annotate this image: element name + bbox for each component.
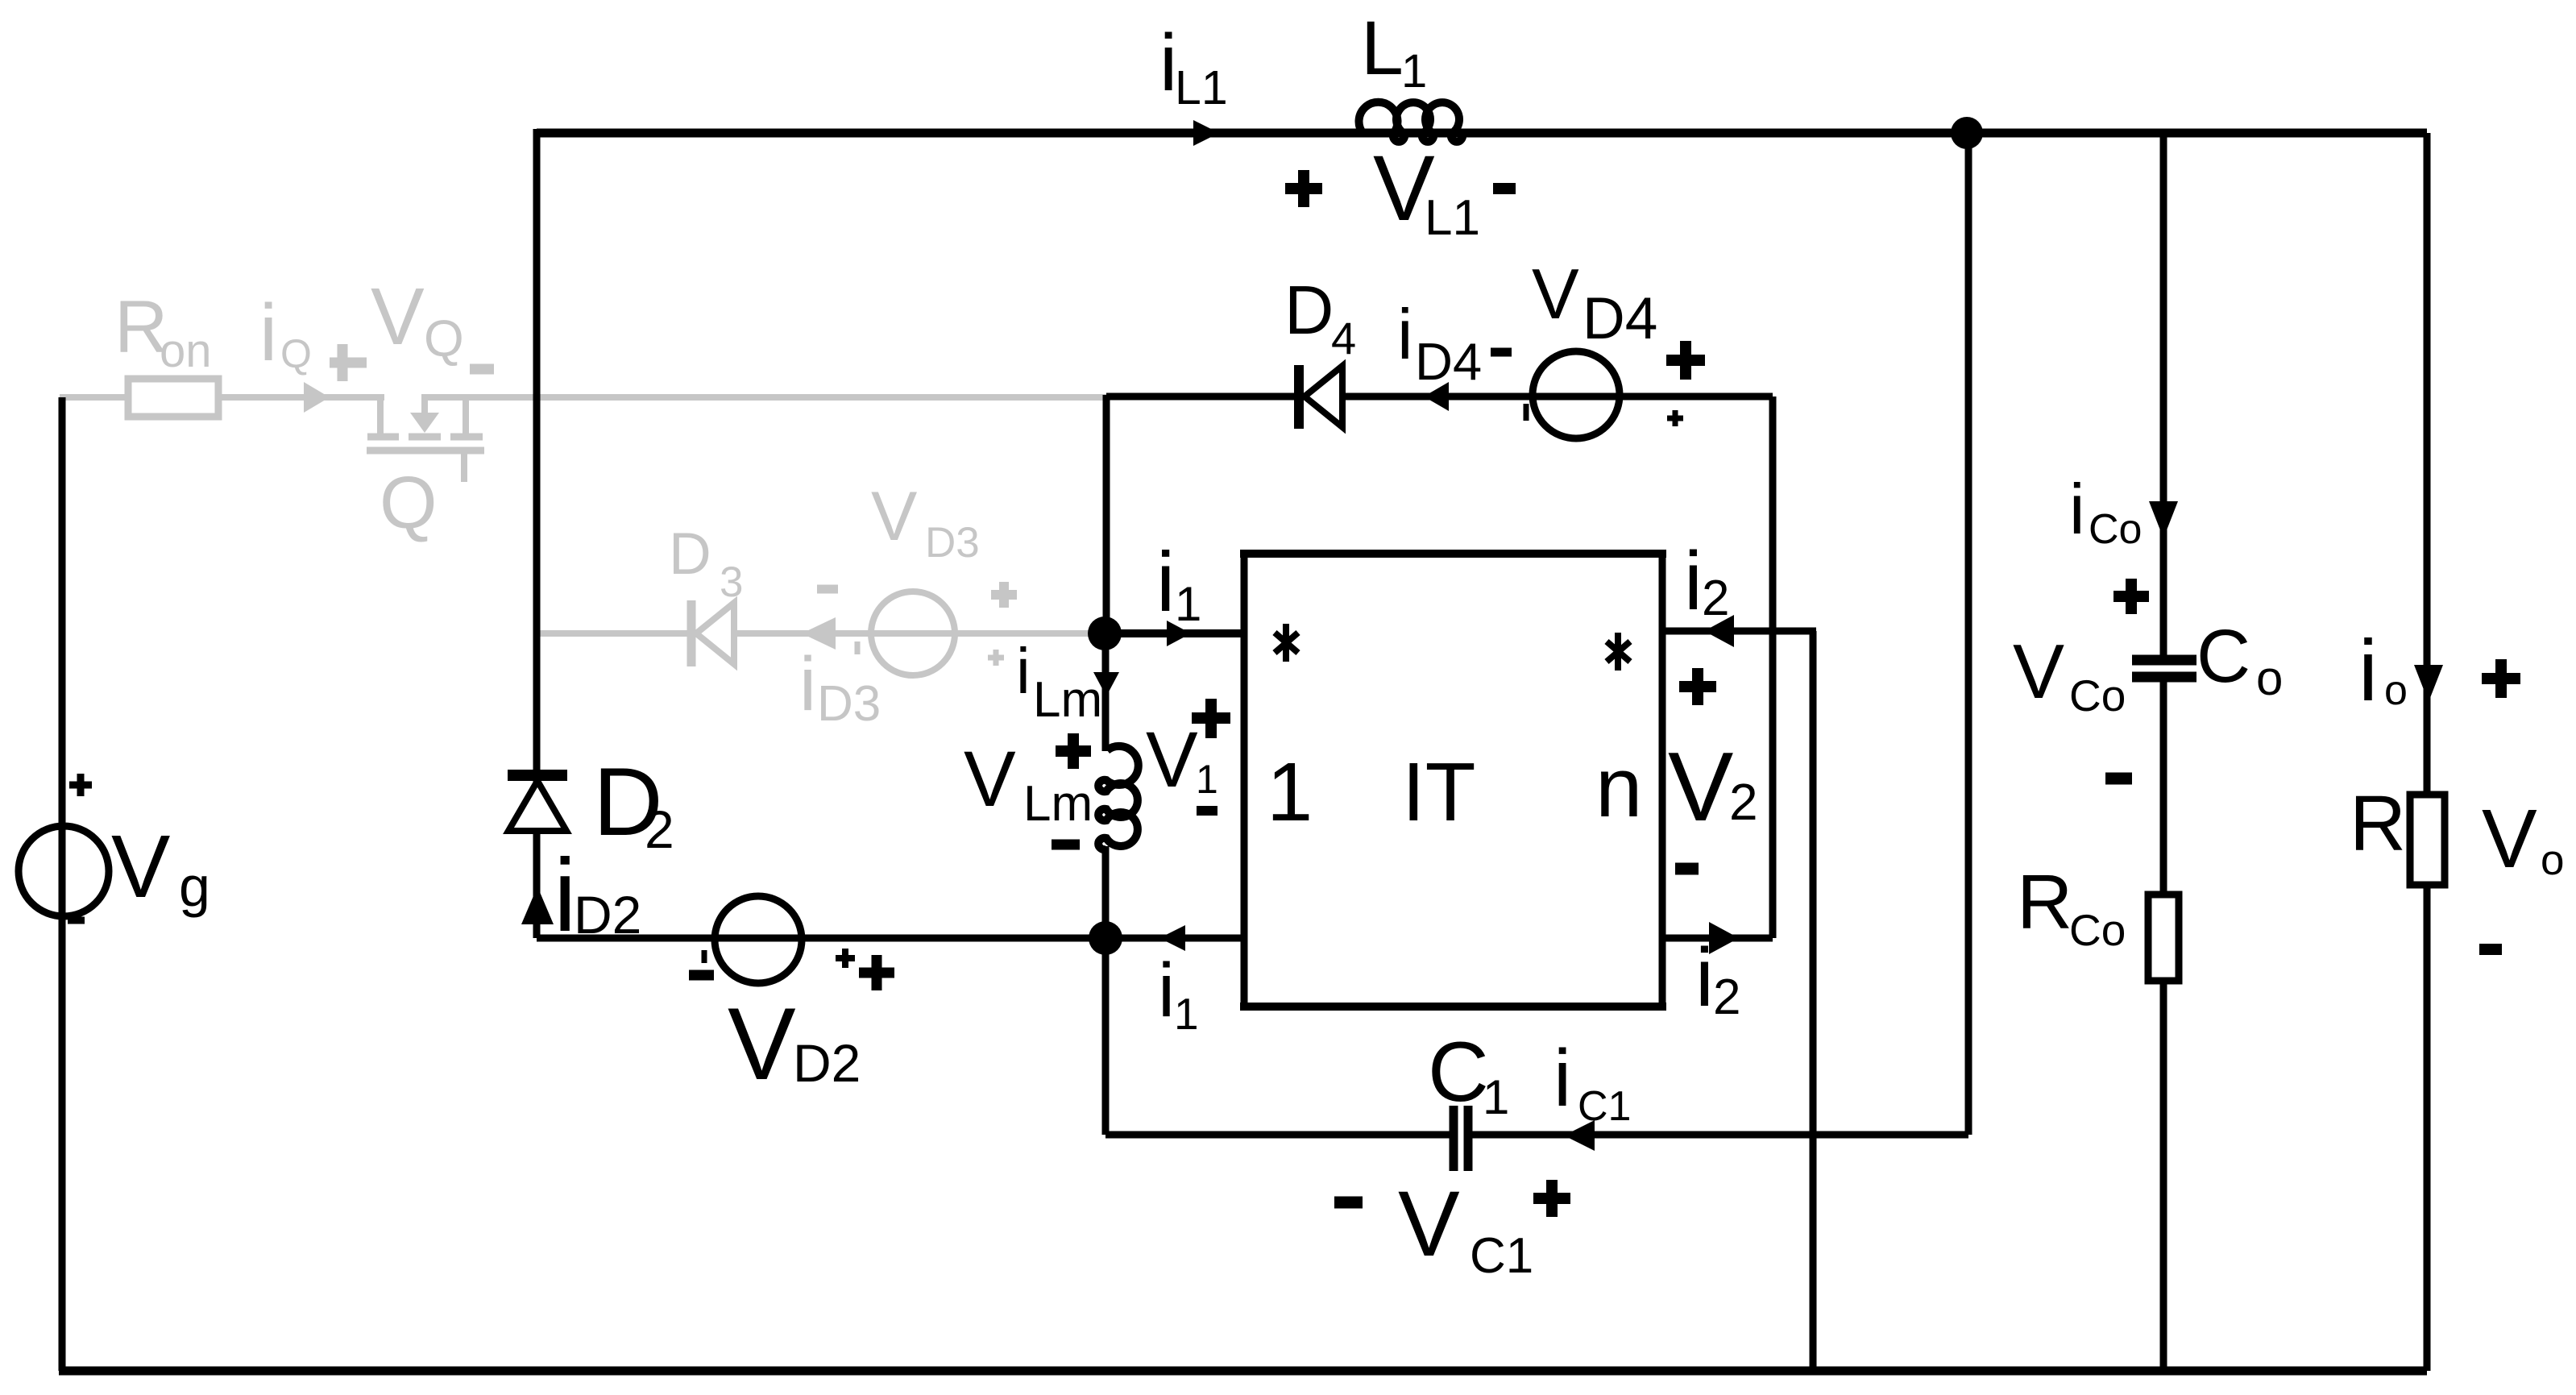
svg-text:n: n xyxy=(1595,741,1642,835)
svg-text:i: i xyxy=(799,641,816,727)
current arrow iC1 xyxy=(1564,1120,1595,1151)
svg-text:D3: D3 xyxy=(817,676,881,732)
VD2 small plus xyxy=(836,949,855,968)
current arrow i1 bottom xyxy=(1159,925,1185,951)
current arrow iL1 xyxy=(1193,120,1219,146)
current arrow iCo xyxy=(2149,501,2178,538)
svg-text:D4: D4 xyxy=(1415,332,1482,391)
svg-text:o: o xyxy=(2256,651,2283,705)
svg-text:V: V xyxy=(728,986,796,1101)
capacitor C1 xyxy=(1454,1106,1468,1171)
svg-text:Q: Q xyxy=(424,309,464,367)
wire Lm lower xyxy=(1102,846,1110,938)
Vg minus xyxy=(68,917,85,924)
svg-text:Q: Q xyxy=(280,331,312,376)
svg-text:2: 2 xyxy=(645,799,674,859)
transformer IT box xyxy=(1240,550,1666,1011)
diode D4 xyxy=(1299,365,1449,429)
wire i1 top pin xyxy=(1105,629,1244,637)
wire left vertical of D2 branch xyxy=(533,129,541,938)
current arrow iQ xyxy=(304,382,330,413)
svg-text:2: 2 xyxy=(1702,571,1729,626)
svg-text:i: i xyxy=(259,288,277,378)
wire C1 row left xyxy=(1105,1131,1450,1139)
svg-text:IT: IT xyxy=(1402,745,1476,838)
svg-text:1: 1 xyxy=(1175,577,1201,631)
transistor Q (MOSFET) xyxy=(367,397,484,482)
wire Q source to node segment xyxy=(421,394,1106,401)
resistor R xyxy=(2410,795,2445,885)
wire i2 bottom pin xyxy=(1662,935,1773,942)
wire Co branch lower xyxy=(2160,682,2167,1371)
source VD2 xyxy=(715,896,802,983)
node C (output rail) xyxy=(1951,117,1983,149)
wire Co branch upper xyxy=(2160,133,2167,655)
inductor L1 xyxy=(1359,102,1463,142)
wire Lm upper xyxy=(1102,633,1110,751)
svg-text:Q: Q xyxy=(380,462,438,544)
svg-text:R: R xyxy=(2017,859,2072,945)
svg-text:D3: D3 xyxy=(925,519,980,567)
source VD4 xyxy=(1533,351,1620,438)
svg-text:L1: L1 xyxy=(1425,190,1480,246)
inductor Lm xyxy=(1098,746,1139,849)
svg-text:V: V xyxy=(1146,716,1198,803)
source Vg xyxy=(19,826,109,916)
current arrow i2 bottom xyxy=(1709,922,1739,954)
D3 minus xyxy=(817,585,838,594)
svg-text:V: V xyxy=(2013,629,2064,715)
wire node to C1 row xyxy=(1102,938,1110,1135)
wire D3 branch xyxy=(537,630,1105,637)
D3 plus xyxy=(991,582,1017,608)
svg-text:i: i xyxy=(1553,1033,1571,1123)
io plus xyxy=(2482,659,2520,698)
current arrow iLm xyxy=(1093,672,1119,696)
svg-text:1: 1 xyxy=(1174,989,1199,1039)
capacitor Co xyxy=(2132,660,2196,677)
wire C1 row right xyxy=(1472,1131,1968,1139)
svg-text:i: i xyxy=(2358,621,2378,719)
current arrow iD2 xyxy=(521,886,554,924)
wire VD2 row xyxy=(537,935,1105,942)
svg-text:V: V xyxy=(1532,254,1579,334)
svg-text:V: V xyxy=(1668,732,1733,841)
svg-text:V: V xyxy=(871,478,917,555)
V1 plus xyxy=(1192,699,1230,738)
Vg plus xyxy=(69,774,92,796)
wire Vg left vertical xyxy=(59,397,66,1371)
svg-text:Co: Co xyxy=(2069,671,2126,720)
svg-text:L1: L1 xyxy=(1175,61,1228,114)
wire i2 top pin xyxy=(1662,628,1816,635)
V2 plus xyxy=(1679,668,1716,705)
svg-text:D: D xyxy=(669,521,711,587)
svg-text:on: on xyxy=(160,325,212,377)
svg-text:V: V xyxy=(2482,792,2537,885)
diode D2 xyxy=(508,775,567,924)
svg-text:2: 2 xyxy=(1713,969,1740,1025)
current arrow i2 top xyxy=(1704,615,1734,647)
VD3 small plus xyxy=(988,650,1004,666)
svg-text:o: o xyxy=(2384,667,2408,714)
node B (primary bottom) xyxy=(1089,921,1122,955)
polarity dot star secondary xyxy=(1607,633,1630,671)
VD3 polarity tick xyxy=(855,641,861,654)
svg-text:1: 1 xyxy=(1483,1070,1509,1124)
svg-text:i: i xyxy=(1684,534,1703,627)
wire bottom rail xyxy=(59,1367,2427,1376)
wire load R branch xyxy=(2424,133,2431,1371)
svg-text:V: V xyxy=(111,817,170,916)
wire V2 loop vertical xyxy=(1769,396,1777,938)
svg-text:i: i xyxy=(1695,931,1714,1023)
VC1 minus xyxy=(1334,1197,1363,1209)
svg-text:D: D xyxy=(1284,272,1334,349)
svg-text:Lm: Lm xyxy=(1033,672,1102,728)
svg-text:L: L xyxy=(1361,6,1404,91)
svg-text:i: i xyxy=(1158,948,1175,1033)
resistor Ron xyxy=(128,379,218,417)
svg-text:i: i xyxy=(2069,469,2085,549)
current arrow io xyxy=(2414,665,2443,702)
svg-text:i: i xyxy=(1016,635,1031,707)
svg-text:3: 3 xyxy=(720,558,743,606)
gray labels xyxy=(114,272,1017,732)
Vo minus xyxy=(2479,944,2502,955)
V1 minus xyxy=(1197,806,1217,816)
VD4 big plus xyxy=(1666,341,1705,380)
svg-text:D4: D4 xyxy=(1583,286,1657,351)
svg-text:o: o xyxy=(2541,837,2564,884)
VQ plus xyxy=(330,344,367,381)
wire C1 feedback vertical xyxy=(1965,133,1972,1135)
current arrow iD3 xyxy=(802,617,836,650)
wire i1 bottom pin xyxy=(1105,935,1244,942)
current arrow iD4 xyxy=(1424,382,1449,411)
VLm minus xyxy=(1052,840,1080,850)
VL1 plus xyxy=(1285,170,1322,207)
VD4 small plus xyxy=(1667,410,1683,426)
wire secondary right vertical xyxy=(1810,631,1817,1371)
svg-text:D2: D2 xyxy=(793,1033,861,1093)
svg-text:D2: D2 xyxy=(574,885,641,945)
wire top (L1 rail) xyxy=(537,129,2427,138)
svg-text:Co: Co xyxy=(2069,905,2126,955)
svg-text:V: V xyxy=(371,272,425,362)
source VD3 xyxy=(871,592,955,675)
resistor RCo xyxy=(2148,895,2179,981)
svg-text:2: 2 xyxy=(1729,773,1758,831)
svg-text:Lm: Lm xyxy=(1023,776,1093,832)
svg-text:1: 1 xyxy=(1267,745,1313,838)
node A (primary top) xyxy=(1088,617,1122,650)
svg-text:C: C xyxy=(2196,614,2250,698)
VCo minus xyxy=(2105,773,2132,785)
svg-text:C: C xyxy=(1428,1025,1489,1119)
svg-text:V: V xyxy=(964,735,1016,823)
wire Ron-Q drain segment xyxy=(60,394,384,401)
svg-text:i: i xyxy=(1397,294,1413,374)
svg-text:i: i xyxy=(1156,535,1175,629)
wire Q node vertical xyxy=(1103,395,1110,633)
current arrow i1 top xyxy=(1167,621,1191,646)
VD4 polarity tick xyxy=(1524,404,1529,421)
diode D3 xyxy=(687,600,696,666)
svg-text:C1: C1 xyxy=(1578,1083,1631,1130)
VD2 polarity tick xyxy=(702,950,707,963)
VLm plus xyxy=(1056,733,1091,769)
VQ minus xyxy=(470,364,494,375)
iCo plus xyxy=(2113,579,2149,614)
svg-text:1: 1 xyxy=(1196,757,1218,802)
svg-text:C1: C1 xyxy=(1470,1228,1533,1284)
svg-text:g: g xyxy=(179,855,210,918)
VC1 plus xyxy=(1533,1180,1570,1217)
V2 minus xyxy=(1675,863,1699,875)
VL1 minus xyxy=(1493,183,1516,194)
VD4 minus xyxy=(1491,348,1512,357)
svg-text:R: R xyxy=(2350,779,2406,867)
svg-text:4: 4 xyxy=(1331,313,1356,363)
VD2 minus xyxy=(689,970,714,981)
svg-text:V: V xyxy=(1398,1173,1460,1276)
svg-text:Co: Co xyxy=(2089,506,2142,553)
polarity dot star primary xyxy=(1275,624,1298,662)
svg-text:1: 1 xyxy=(1401,45,1427,98)
wire D4 row xyxy=(1106,393,1773,401)
VD2 big plus xyxy=(859,955,894,990)
GRAY SECTION (switch network) xyxy=(60,379,1106,675)
